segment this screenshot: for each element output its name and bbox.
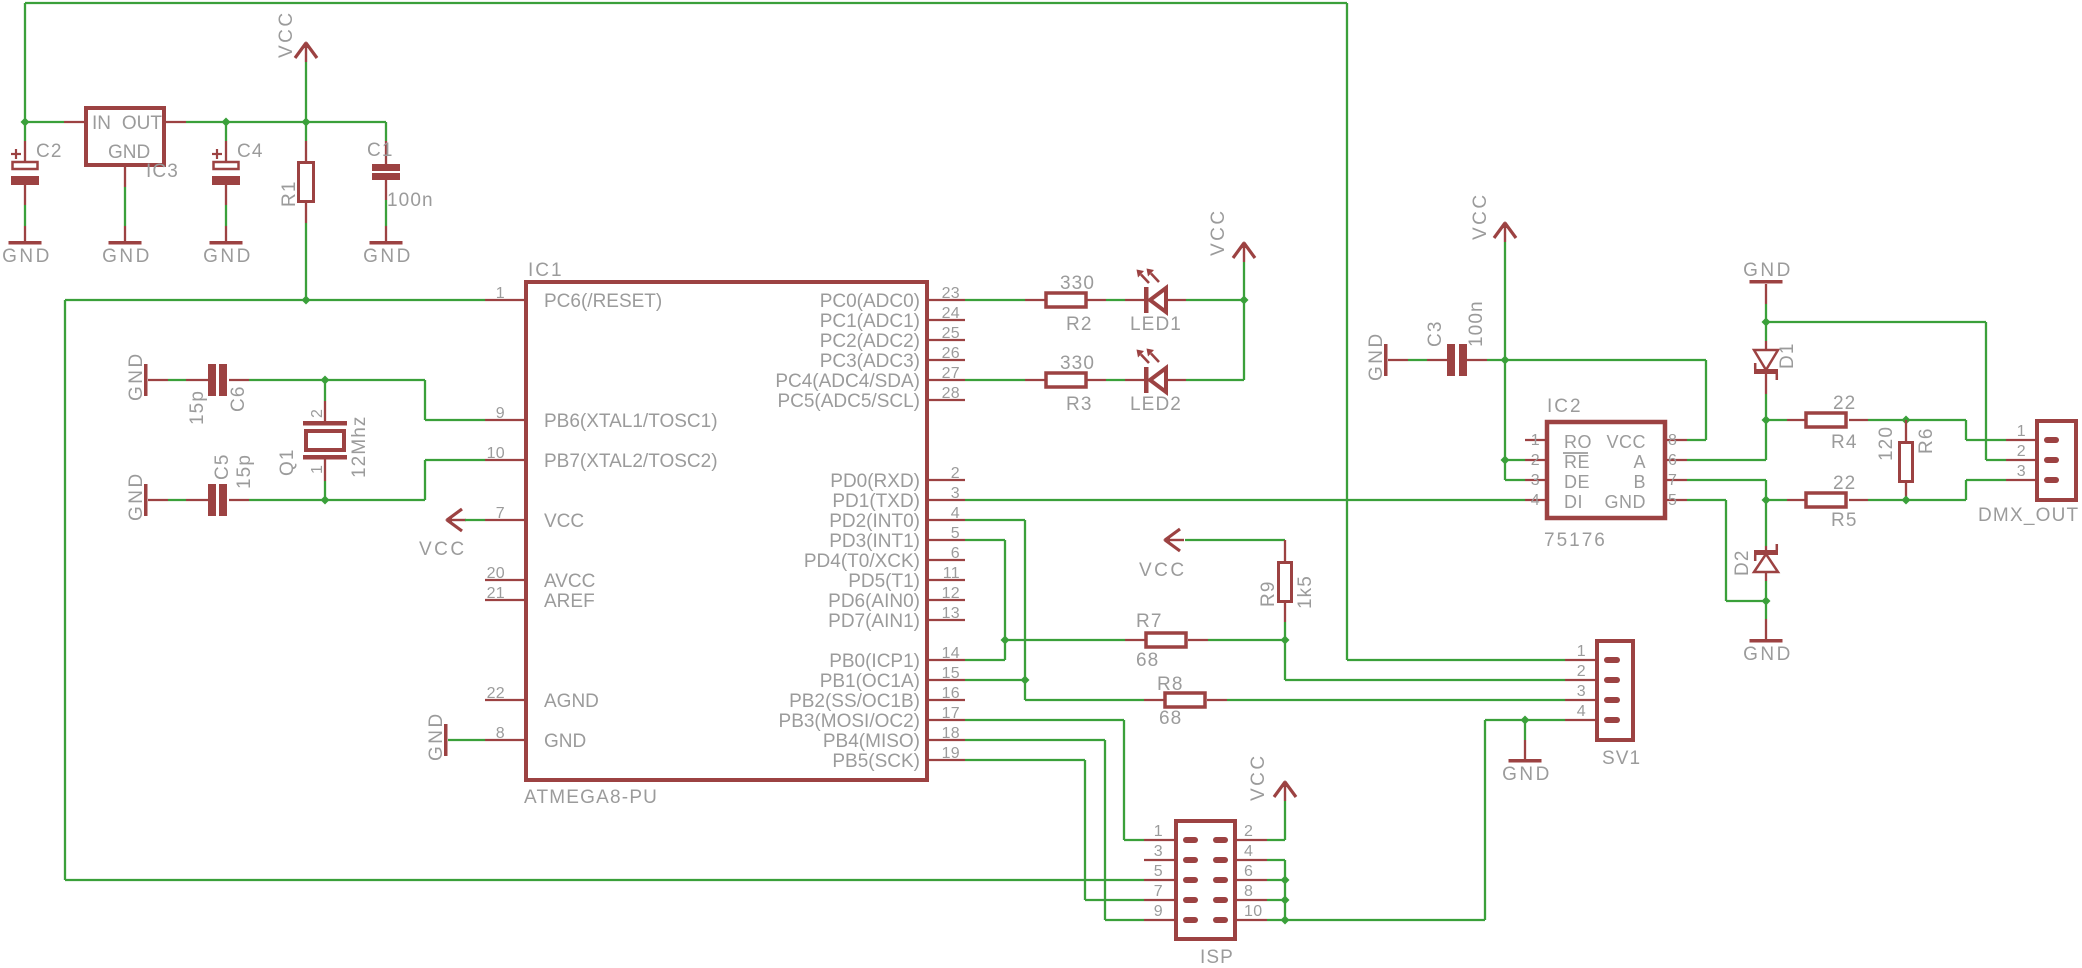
pin 13 PD7(AIN1) of IC1 [828, 605, 965, 632]
svg-text:3: 3 [2017, 463, 2026, 480]
power VCC arrow at ISP [1248, 753, 1296, 840]
svg-text:13: 13 [942, 605, 960, 622]
svg-text:15p: 15p [187, 390, 208, 425]
node junction ISP pin6 [1281, 876, 1290, 885]
wire VCC to RE/DE [1505, 360, 1525, 480]
wire A to D1/R4 [1687, 420, 1766, 460]
wire R3 to LED2 [1106, 379, 1145, 381]
pin 20 AVCC of IC1 [485, 565, 595, 592]
wire R9 pins [1284, 540, 1285, 640]
svg-text:6: 6 [1668, 452, 1677, 469]
wire to R8 [1025, 699, 1565, 701]
pin 3 DE of IC2 [1525, 472, 1590, 492]
svg-text:22: 22 [1833, 393, 1856, 414]
svg-text:GND: GND [1366, 331, 1387, 381]
svg-text:12: 12 [942, 585, 960, 602]
node junction PB1 net [1021, 676, 1030, 685]
ground GND below D2 [1743, 639, 1793, 665]
svg-text:PC1(ADC1): PC1(ADC1) [820, 311, 920, 332]
svg-text:7: 7 [1668, 472, 1677, 489]
wire B to D2/R5 [1687, 480, 1766, 500]
node junction SV1 pin4 GND [1521, 716, 1530, 725]
svg-text:IC3: IC3 [146, 161, 179, 182]
svg-text:2: 2 [1531, 452, 1540, 469]
ic ATMEGA8-PU IC1 body [524, 260, 927, 808]
pin 18 PB4(MISO) of IC1 [823, 725, 965, 752]
svg-text:4: 4 [1244, 843, 1253, 860]
svg-text:22: 22 [1833, 473, 1856, 494]
wire D2 pins [1765, 500, 1767, 601]
wire R6 pins [1905, 420, 1907, 500]
svg-text:120: 120 [1876, 426, 1897, 461]
svg-text:9: 9 [496, 405, 505, 422]
svg-text:PB3(MOSI/OC2): PB3(MOSI/OC2) [779, 711, 920, 732]
svg-text:23: 23 [942, 285, 960, 302]
pin 1 of DMX_OUT [2006, 423, 2059, 443]
svg-text:PB0(ICP1): PB0(ICP1) [829, 651, 920, 672]
node junction R6/R5 [1902, 496, 1911, 505]
node junction ISP pin8 [1281, 896, 1290, 905]
pin 27 PC4(ADC4/SDA) of IC1 [775, 365, 965, 392]
wire LED net vertical [1243, 300, 1245, 380]
svg-text:GND: GND [203, 246, 253, 267]
wire R5 row [1766, 499, 1906, 501]
pin 14 PB0(ICP1) of IC1 [829, 645, 965, 672]
svg-text:2: 2 [2017, 443, 2026, 460]
pin 19 PB5(SCK) of IC1 [832, 745, 965, 772]
wire R4 row [1766, 419, 1906, 421]
wire D2 to GND [1765, 601, 1767, 639]
svg-text:VCC: VCC [419, 539, 467, 560]
svg-text:PD5(T1): PD5(T1) [848, 571, 920, 592]
wire C6 row [148, 379, 425, 381]
resistor R3 330 [1046, 353, 1095, 415]
svg-text:1: 1 [1531, 432, 1540, 449]
svg-text:GND: GND [108, 142, 150, 163]
wire ISP GND chain [1267, 860, 1285, 920]
svg-text:C1: C1 [367, 140, 394, 161]
node junction D2/R5/B [1762, 496, 1771, 505]
svg-text:GND: GND [126, 471, 147, 521]
wire R9 net to SV1 pin2 [1285, 640, 1565, 680]
capacitor C2 [11, 141, 63, 185]
node junction ISP pin10 [1281, 916, 1290, 925]
svg-text:GND: GND [1743, 260, 1793, 281]
wire left RESET net vertical [64, 300, 66, 880]
wire C5 row [148, 499, 425, 501]
svg-text:PD1(TXD): PD1(TXD) [832, 491, 920, 512]
svg-text:OUT: OUT [122, 113, 163, 134]
svg-text:AREF: AREF [544, 591, 595, 612]
svg-text:PC6(/RESET): PC6(/RESET) [544, 291, 662, 312]
node junction R7 net [1001, 636, 1010, 645]
pin 7 VCC of IC1 [485, 505, 584, 532]
svg-text:DI: DI [1564, 492, 1583, 512]
svg-text:17: 17 [942, 705, 960, 722]
svg-text:PB1(OC1A): PB1(OC1A) [820, 671, 920, 692]
capacitor C3 100n [1425, 300, 1487, 376]
svg-text:24: 24 [942, 305, 960, 322]
svg-text:AGND: AGND [544, 691, 599, 712]
power VCC arrow at C3 [1470, 192, 1516, 360]
wire PB1 to junction [965, 679, 1025, 681]
wire R2 to LED1 [1106, 299, 1145, 301]
svg-text:330: 330 [1060, 273, 1095, 294]
svg-text:8: 8 [1668, 432, 1677, 449]
pin 8 VCC of IC2 [1606, 432, 1687, 452]
led LED2 [1130, 349, 1182, 416]
svg-text:25: 25 [942, 325, 960, 342]
svg-text:ATMEGA8-PU: ATMEGA8-PU [524, 787, 658, 808]
pin 1 of ISP [1144, 823, 1198, 843]
diode D1 [1754, 343, 1798, 381]
connector ISP body [1176, 821, 1235, 968]
svg-text:GND: GND [2, 246, 52, 267]
resistor R5 22 [1806, 473, 1858, 531]
svg-text:R8: R8 [1157, 674, 1184, 695]
ground GND under C1 [363, 241, 413, 267]
svg-text:1: 1 [309, 465, 326, 474]
pin 3 of DMX_OUT [2006, 463, 2059, 483]
pin 15 PB1(OC1A) of IC1 [820, 665, 965, 692]
svg-text:15: 15 [942, 665, 960, 682]
pin 4 of ISP [1213, 843, 1267, 863]
svg-text:PD4(T0/XCK): PD4(T0/XCK) [804, 551, 920, 572]
svg-text:16: 16 [942, 685, 960, 702]
resistor R6 120 [1876, 426, 1937, 482]
wire PD1 TXD to IC2 DI [965, 499, 1525, 501]
resistor R2 330 [1046, 273, 1095, 335]
wire R2 pins [1025, 299, 1106, 301]
svg-text:GND: GND [1605, 492, 1647, 512]
svg-text:PC5(ADC5/SCL): PC5(ADC5/SCL) [777, 391, 920, 412]
svg-text:3: 3 [951, 485, 960, 502]
pin 4 DI of IC2 [1525, 492, 1583, 512]
svg-text:8: 8 [496, 725, 505, 742]
pin 2 of SV1 [1565, 663, 1620, 683]
wire RESET row to IC1 pin1 [65, 299, 485, 301]
pin 1 of SV1 [1565, 643, 1620, 663]
svg-text:6: 6 [1244, 863, 1253, 880]
pin 6 of ISP [1213, 863, 1267, 883]
svg-text:C3: C3 [1425, 321, 1446, 348]
svg-text:2: 2 [309, 409, 326, 418]
svg-text:VCC: VCC [1208, 208, 1229, 256]
ground GND at SV1 [1502, 720, 1552, 785]
pin 3 PD1(TXD) of IC1 [832, 485, 965, 512]
svg-text:Q1: Q1 [277, 448, 298, 476]
svg-text:21: 21 [487, 585, 505, 602]
svg-text:3: 3 [1531, 472, 1540, 489]
svg-text:D2: D2 [1732, 550, 1753, 577]
svg-text:IC1: IC1 [528, 260, 564, 281]
svg-text:PC3(ADC3): PC3(ADC3) [820, 351, 920, 372]
svg-text:26: 26 [942, 345, 960, 362]
capacitor C5 15p [208, 454, 255, 517]
pin 1 PC6(/RESET) of IC1 [485, 285, 662, 312]
node junction LED1/VCC [1240, 296, 1249, 305]
node junction R1/VCC [302, 118, 311, 127]
svg-text:28: 28 [942, 385, 960, 402]
svg-text:PD6(AIN0): PD6(AIN0) [828, 591, 920, 612]
node junction R9/R7 [1281, 636, 1290, 645]
wire R4 net to DMX pin1 [1906, 420, 2006, 440]
pin 2 of ISP [1213, 823, 1267, 843]
svg-text:C2: C2 [36, 141, 63, 162]
svg-text:R3: R3 [1066, 394, 1093, 415]
wire PD3 down [965, 540, 1005, 660]
pin 5 of ISP [1144, 863, 1198, 883]
svg-text:GND: GND [363, 246, 413, 267]
pin 8 of ISP [1213, 883, 1267, 903]
capacitor C6 15p [187, 364, 249, 425]
wire C4 pins [225, 122, 227, 241]
svg-text:B: B [1633, 472, 1646, 492]
svg-text:PD3(INT1): PD3(INT1) [829, 531, 920, 552]
wire C1 pins [385, 122, 387, 241]
pin 21 AREF of IC1 [485, 585, 595, 612]
wire R7 row [1005, 639, 1285, 641]
svg-text:VCC: VCC [1606, 432, 1646, 452]
svg-text:1: 1 [2017, 423, 2026, 440]
wire SV1 pin4 net [1285, 720, 1565, 920]
svg-text:12Mhz: 12Mhz [349, 415, 370, 478]
svg-text:5: 5 [1154, 863, 1163, 880]
wire R5 net to DMX pin3 [1906, 480, 2006, 500]
svg-text:5: 5 [1668, 492, 1677, 509]
ground GND under C4 [203, 241, 253, 267]
svg-text:DMX_OUT: DMX_OUT [1978, 505, 2079, 526]
wire IC2 pin8 VCC [1505, 360, 1706, 440]
node junction C4 [222, 118, 231, 127]
wire PB4 to ISP9 [965, 740, 1144, 920]
svg-text:330: 330 [1060, 353, 1095, 374]
wire IC3 OUT pin [166, 121, 186, 123]
pin 2 RE of IC2 [1525, 452, 1590, 472]
svg-text:3: 3 [1577, 683, 1586, 700]
svg-text:D1: D1 [1777, 343, 1798, 370]
wire PC4 to R3 [965, 379, 1025, 381]
ground GND at C6 [126, 351, 148, 401]
svg-text:2: 2 [951, 465, 960, 482]
svg-text:LED1: LED1 [1130, 314, 1182, 335]
connector SV1 body [1597, 641, 1641, 769]
svg-text:C4: C4 [237, 141, 264, 162]
ground GND under IC3 [102, 241, 152, 267]
wire Q1 pin2 [324, 380, 326, 421]
svg-text:4: 4 [1577, 703, 1586, 720]
svg-text:GND: GND [1743, 644, 1793, 665]
pin 26 PC3(ADC3) of IC1 [820, 345, 965, 372]
power VCC arrow at LEDs [1208, 208, 1255, 300]
svg-text:C5: C5 [212, 454, 233, 481]
svg-text:R4: R4 [1831, 432, 1858, 453]
svg-text:VCC: VCC [276, 10, 297, 58]
ic 75176 IC2 body [1544, 396, 1665, 551]
node junction C2/IN [21, 118, 30, 127]
svg-text:27: 27 [942, 365, 960, 382]
svg-text:GND: GND [426, 711, 447, 761]
node junction D1/GND [1762, 318, 1771, 327]
capacitor C4 [212, 141, 264, 185]
svg-text:PB4(MISO): PB4(MISO) [823, 731, 920, 752]
svg-text:IC2: IC2 [1547, 396, 1583, 417]
svg-text:22: 22 [487, 685, 505, 702]
svg-text:GND: GND [126, 351, 147, 401]
wire LED2 anode [1166, 379, 1244, 381]
svg-text:PD7(AIN1): PD7(AIN1) [828, 611, 920, 632]
pin 2 of DMX_OUT [2006, 443, 2059, 463]
diode D2 [1732, 544, 1778, 576]
wire LED1 anode [1166, 299, 1244, 301]
wire VIN to SV1 pin1 [1347, 3, 1565, 660]
svg-text:VCC: VCC [1248, 753, 1269, 801]
svg-text:GND: GND [544, 731, 586, 752]
power VCC arrow at R9 [1139, 529, 1284, 581]
pin 24 PC1(ADC1) of IC1 [820, 305, 965, 332]
svg-text:20: 20 [487, 565, 505, 582]
pin 10 of ISP [1213, 903, 1267, 923]
pin 2 PD0(RXD) of IC1 [830, 465, 965, 492]
pin 28 PC5(ADC5/SCL) of IC1 [777, 385, 965, 412]
connector DMX_OUT body [1978, 421, 2079, 526]
pin 8 GND of IC1 [485, 725, 586, 752]
svg-text:4: 4 [1531, 492, 1540, 509]
svg-text:PC4(ADC4/SDA): PC4(ADC4/SDA) [775, 371, 920, 392]
svg-text:PB5(SCK): PB5(SCK) [832, 751, 920, 772]
svg-text:GND: GND [102, 246, 152, 267]
svg-text:3: 3 [1154, 843, 1163, 860]
svg-text:RO: RO [1564, 432, 1592, 452]
svg-text:ISP: ISP [1200, 947, 1234, 968]
wire PB6 route [425, 380, 485, 420]
svg-text:7: 7 [1154, 883, 1163, 900]
ground GND at C3 [1366, 331, 1388, 381]
pin 10 PB7(XTAL2/TOSC2) of IC1 [485, 445, 718, 472]
svg-text:8: 8 [1244, 883, 1253, 900]
pin 12 PD6(AIN0) of IC1 [828, 585, 965, 612]
pin 7 of ISP [1144, 883, 1198, 903]
pin 9 PB6(XTAL1/TOSC1) of IC1 [485, 405, 718, 432]
svg-text:R5: R5 [1831, 510, 1858, 531]
node junction RE tap [1501, 456, 1510, 465]
svg-text:PB7(XTAL2/TOSC2): PB7(XTAL2/TOSC2) [544, 451, 718, 472]
svg-text:PC2(ADC2): PC2(ADC2) [820, 331, 920, 352]
wire D1 pins [1765, 322, 1767, 420]
pin 11 PD5(T1) of IC1 [848, 565, 965, 592]
svg-text:DE: DE [1564, 472, 1590, 492]
capacitor C1 100n [367, 140, 434, 211]
svg-text:IN: IN [92, 113, 111, 134]
pin 7 B of IC2 [1633, 472, 1687, 492]
pin 4 of SV1 [1565, 703, 1620, 723]
resistor R8 68 [1157, 674, 1205, 729]
wire R3 pins [1025, 379, 1106, 381]
svg-text:68: 68 [1136, 650, 1159, 671]
wire ISP pin2 VCC [1267, 839, 1285, 841]
svg-text:AVCC: AVCC [544, 571, 595, 592]
wire PB5 to ISP7 [965, 760, 1144, 900]
ground GND above D1 [1743, 260, 1793, 322]
svg-text:6: 6 [951, 545, 960, 562]
node junction Q1 bottom [321, 496, 330, 505]
svg-text:A: A [1633, 452, 1646, 472]
svg-text:1: 1 [1154, 823, 1163, 840]
svg-text:R2: R2 [1066, 314, 1093, 335]
pin 16 PB2(SS/OC1B) of IC1 [789, 685, 965, 712]
svg-text:2: 2 [1577, 663, 1586, 680]
pin 25 PC2(ADC2) of IC1 [820, 325, 965, 352]
pin 5 GND of IC2 [1605, 492, 1688, 512]
crystal Q1 12Mhz [277, 409, 370, 478]
pin 23 PC0(ADC0) of IC1 [820, 285, 965, 312]
svg-text:14: 14 [942, 645, 960, 662]
pin 1 RO of IC2 [1525, 432, 1592, 452]
svg-text:VCC: VCC [544, 511, 584, 532]
wire PC0 to R2 [965, 299, 1025, 301]
svg-text:18: 18 [942, 725, 960, 742]
node junction D1/R4/A [1762, 416, 1771, 425]
svg-text:10: 10 [487, 445, 505, 462]
wire C2 pins [24, 122, 26, 241]
wire RESET to ISP5 [65, 879, 1144, 881]
wire top border net VIN [25, 3, 1347, 122]
svg-text:GND: GND [1502, 764, 1552, 785]
svg-text:100n: 100n [387, 190, 434, 211]
node junction C3/VCC [1501, 356, 1510, 365]
voltage regulator IC3 [86, 108, 179, 182]
svg-text:RE: RE [1564, 452, 1590, 472]
pin 3 of ISP [1144, 843, 1198, 863]
resistor R9 1k5 [1258, 563, 1316, 610]
power VCC arrow at IC1 pin7 [419, 509, 485, 560]
resistor R7 68 [1136, 611, 1186, 671]
svg-text:R9: R9 [1258, 581, 1279, 608]
pin 3 of SV1 [1565, 683, 1620, 703]
pin 17 PB3(MOSI/OC2) of IC1 [779, 705, 965, 732]
svg-text:68: 68 [1159, 708, 1182, 729]
wire IC2 GND route [1687, 500, 1766, 601]
svg-text:VCC: VCC [1139, 560, 1187, 581]
node junction R4/R6 [1902, 416, 1911, 425]
wire R1 pins [305, 122, 307, 300]
pin 5 PD3(INT1) of IC1 [829, 525, 965, 552]
svg-text:2: 2 [1244, 823, 1253, 840]
svg-text:19: 19 [942, 745, 960, 762]
ground GND under C2 [2, 241, 52, 267]
svg-text:PD2(INT0): PD2(INT0) [829, 511, 920, 532]
wire IC3 IN pin [64, 121, 84, 123]
wire PB3 to ISP1 [965, 720, 1144, 840]
svg-text:PB6(XTAL1/TOSC1): PB6(XTAL1/TOSC1) [544, 411, 718, 432]
led LED1 [1130, 269, 1182, 336]
svg-text:R1: R1 [279, 181, 300, 208]
wire C3 row [1388, 359, 1505, 361]
svg-text:15p: 15p [234, 454, 255, 489]
pin 6 PD4(T0/XCK) of IC1 [804, 545, 965, 572]
resistor R1 [279, 163, 314, 208]
node junction R1/RESET [302, 296, 311, 305]
svg-text:1k5: 1k5 [1295, 575, 1316, 609]
resistor R4 22 [1806, 393, 1858, 453]
pin 4 PD2(INT0) of IC1 [829, 505, 965, 532]
pin 22 AGND of IC1 [485, 685, 599, 712]
node junction Q1 top [321, 376, 330, 385]
wire PD2 down [965, 520, 1025, 700]
pin 6 A of IC2 [1633, 452, 1687, 472]
svg-text:7: 7 [496, 505, 505, 522]
wire VCC rail y122 [25, 121, 386, 123]
